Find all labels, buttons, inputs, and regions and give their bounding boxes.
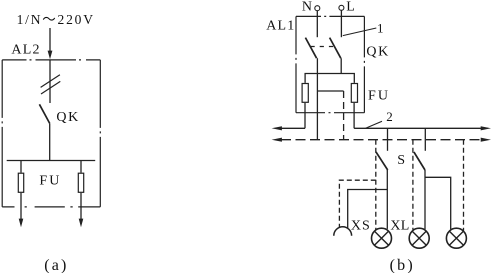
svg-text:L: L <box>346 0 355 14</box>
wire feed into QK <box>49 60 51 103</box>
leader for label 2 <box>366 121 382 128</box>
L feeder to fuses <box>305 74 354 83</box>
mechanical link (dashed) <box>311 46 335 48</box>
conductor-count slashes <box>41 75 60 88</box>
wire L pole down <box>340 58 342 73</box>
switch QK pole L blade <box>330 38 341 59</box>
distribution box AL1 (dash-dot border) <box>296 16 364 112</box>
incoming feed wire arrow <box>49 28 51 52</box>
terminal N <box>315 6 320 11</box>
wire L terminal to QK (circuit 1) <box>340 10 342 37</box>
wire bus to right fuse <box>80 161 82 173</box>
wire left fuse to bus <box>304 103 306 128</box>
lamp 3 <box>446 228 466 248</box>
svg-text:XS: XS <box>351 218 371 233</box>
svg-text:S: S <box>397 153 405 168</box>
svg-text:1: 1 <box>377 20 384 35</box>
svg-text:FU: FU <box>368 88 390 103</box>
wire right fuse to bus <box>353 103 355 128</box>
wire S2 to lamp 2 <box>424 170 426 229</box>
dashed neutral bus with arrows both ends <box>281 139 482 141</box>
wire N terminal to QK <box>316 11 318 37</box>
dashed neutral branch to socket <box>339 180 375 227</box>
switch S2 blade <box>414 152 425 170</box>
svg-text:(b): (b) <box>390 257 415 273</box>
bus bar (a) <box>7 160 96 162</box>
dashed neutral drop to lamp 1 <box>375 140 377 230</box>
leader for label 1 <box>343 28 377 36</box>
dashed neutral drop to lamp 3 <box>463 140 465 231</box>
fuse FU left (b) <box>302 84 308 103</box>
svg-text:2: 2 <box>386 109 393 124</box>
wire N pole down <box>316 58 318 140</box>
fuse FU right (b) <box>351 84 357 103</box>
svg-text:AL2: AL2 <box>11 43 40 58</box>
switch S1 blade <box>376 152 388 170</box>
svg-text:AL1: AL1 <box>266 19 295 34</box>
dashed neutral drop to lamp 2 <box>412 140 414 230</box>
terminal L <box>339 5 344 10</box>
wire bus to left fuse <box>20 161 22 173</box>
fuse FU right (a) <box>78 173 83 192</box>
line bus 2 right segment with arrow <box>354 127 482 129</box>
switch QK pole N blade <box>305 38 316 59</box>
wire bus to switch S1 <box>387 128 389 151</box>
svg-text:1/N～220V: 1/N～220V <box>17 12 95 27</box>
svg-text:(a): (a) <box>44 257 68 273</box>
switch QK blade <box>39 104 49 123</box>
wire QK to bus <box>49 123 51 160</box>
branch S2 to lamp 3 <box>425 177 451 229</box>
svg-text:QK: QK <box>56 110 79 125</box>
distribution box AL2 (dash-dot border) <box>2 60 100 207</box>
lamp 2 <box>409 228 429 248</box>
line bus left segment with arrow <box>281 127 306 129</box>
dashed N riser <box>343 91 345 140</box>
fuse FU left (a) <box>18 173 23 192</box>
svg-text:QK: QK <box>366 44 389 59</box>
svg-text:XL: XL <box>390 218 409 233</box>
lamp 1 <box>372 228 392 248</box>
wire S1 to lamp 1 <box>386 170 388 229</box>
outgoing circuit wire right with arrow <box>80 193 82 220</box>
N branch to dashed riser <box>317 90 343 92</box>
svg-text:FU: FU <box>39 173 61 188</box>
socket live branch <box>348 190 388 229</box>
svg-text:N: N <box>302 0 312 14</box>
socket XS (semicircle) <box>334 227 352 236</box>
wire bus to switch S2 <box>424 128 426 151</box>
outgoing circuit wire left with arrow <box>20 193 22 220</box>
